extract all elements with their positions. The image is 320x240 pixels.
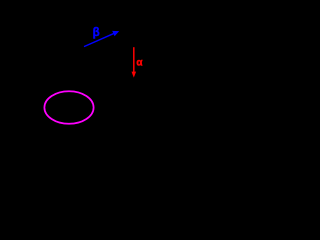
red arrow alpha xyxy=(132,47,137,77)
vector B (blue arrow) xyxy=(84,31,119,47)
svg-text:α: α xyxy=(136,57,143,68)
svg-text:β: β xyxy=(93,27,100,39)
magenta ellipse xyxy=(44,91,93,124)
